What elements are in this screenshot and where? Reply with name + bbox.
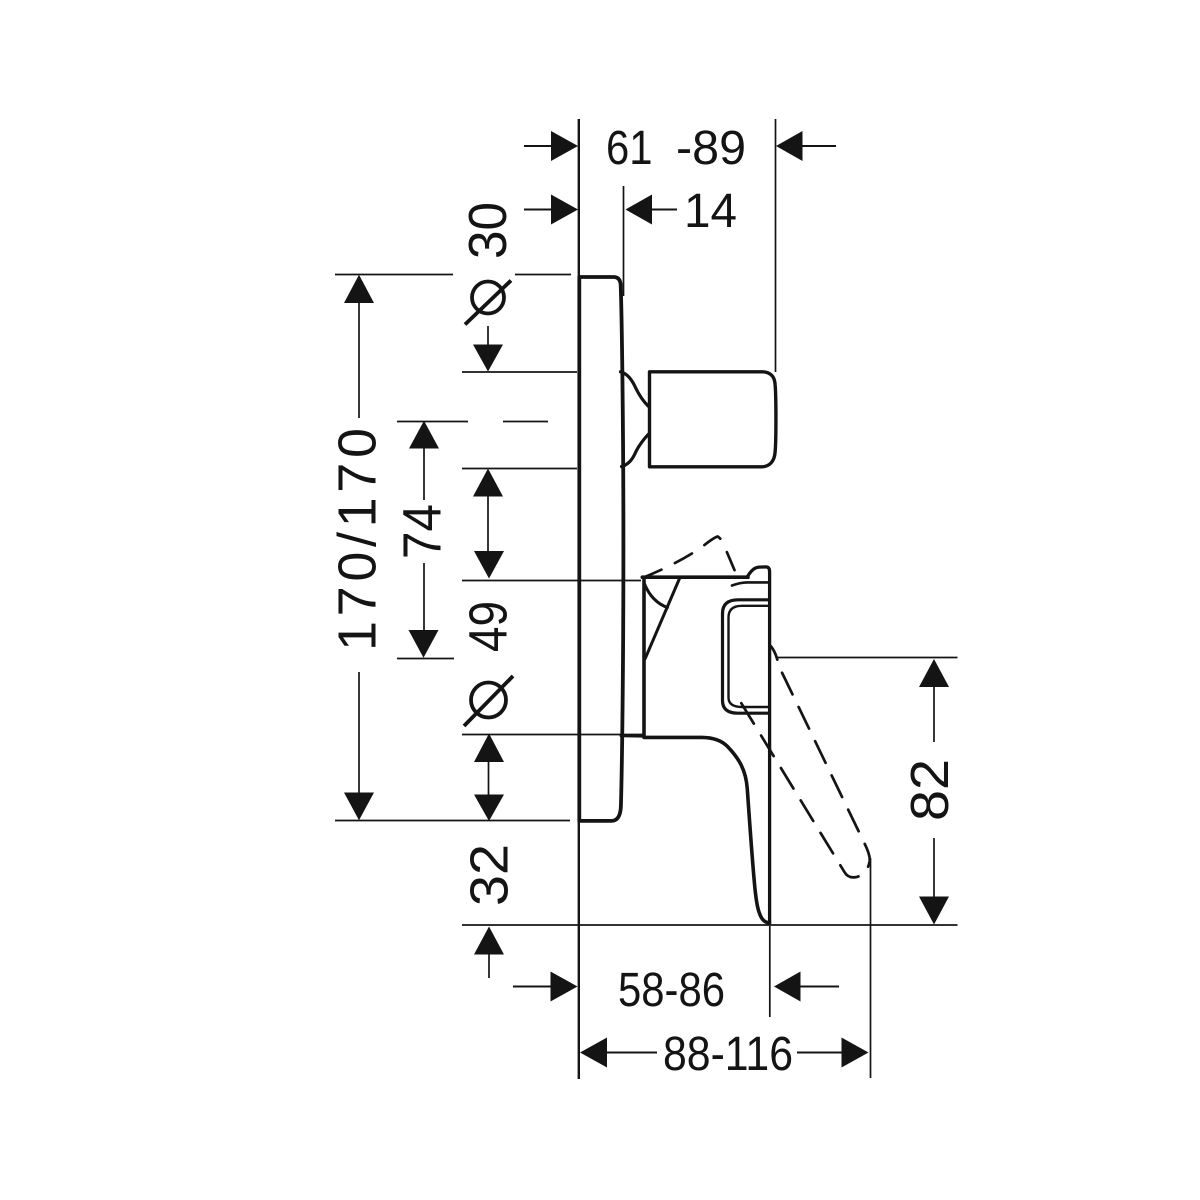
svg-text:170/170: 170/170: [328, 428, 388, 651]
arrow 32 up: [474, 927, 504, 955]
arrow 88-116 right: [842, 1038, 869, 1068]
extension line right 61-89: [775, 119, 777, 372]
handle lip: [747, 567, 770, 923]
svg-text:88-116: 88-116: [663, 1028, 793, 1081]
svg-text:82: 82: [900, 759, 960, 821]
arrow 74 down: [409, 630, 439, 658]
arrow tails 58-86 row: [513, 986, 551, 988]
arrow 61-89 right: [776, 131, 803, 161]
ext line handle axis y658: [397, 658, 454, 660]
arrow 82 up: [919, 659, 949, 687]
svg-text:14: 14: [684, 185, 737, 238]
extension line 88-116 right: [870, 858, 872, 1078]
arrow 32 down: [474, 795, 504, 822]
dashed raised lever: [644, 537, 736, 578]
ext line knob axis y421: [397, 421, 468, 423]
under lip line: [732, 582, 769, 585]
svg-text:61: 61: [606, 122, 653, 175]
arrow d49 up: [474, 734, 504, 763]
arrow 88-116 left: [580, 1038, 607, 1068]
knob neck top: [621, 372, 649, 406]
diverter knob: [650, 372, 776, 467]
arrow 14 left: [551, 195, 578, 225]
svg-text:58-86: 58-86: [618, 964, 725, 1017]
diameter symbol d49: [471, 683, 506, 718]
trim plate: [579, 277, 623, 821]
arrow tails 14 row: [524, 209, 551, 211]
arrow 58-86 right: [774, 972, 801, 1002]
handle hub top: [642, 575, 748, 579]
svg-text:32: 32: [460, 844, 520, 906]
ext line sleeve bottom y734: [462, 734, 643, 736]
svg-text:74: 74: [393, 504, 453, 559]
groove inner: [729, 606, 770, 707]
ext line knob top y372: [462, 371, 577, 373]
ext line sleeve top y580: [462, 580, 641, 582]
arrow 170 down: [344, 793, 374, 821]
handle cone edge: [645, 579, 679, 659]
extension line 58-86 right: [769, 926, 771, 1017]
ext line knob bottom y468: [462, 468, 577, 470]
ext line plate top y274: [335, 274, 453, 276]
arrow tails top row 61-89: [524, 145, 551, 147]
svg-text:-89: -89: [676, 122, 746, 175]
hub bottom and lever: [644, 737, 770, 922]
extension line 14: [623, 186, 625, 296]
ext line 82 top y656: [778, 657, 958, 659]
arrow 82 down: [919, 897, 949, 925]
dim line 170/170 segments: [358, 303, 360, 418]
dim line 74 segments: [423, 449, 425, 501]
svg-text:49: 49: [459, 601, 519, 652]
ext line bottom y925: [462, 924, 958, 926]
dashed lowered lever: [735, 646, 870, 878]
arrow 170 up: [344, 275, 374, 303]
arrow d30 down: [473, 345, 503, 372]
handle cone arc: [645, 584, 668, 608]
sleeve bottom edge: [621, 734, 644, 737]
ext line plate bottom y820: [335, 820, 570, 822]
arrow 74 up: [409, 421, 439, 449]
arrow 14 right: [626, 195, 653, 225]
diameter symbol d30: [472, 282, 504, 314]
svg-text:30: 30: [458, 202, 518, 259]
arrow tails 88-116 row: [607, 1052, 657, 1054]
handle sleeve edge: [642, 578, 646, 736]
arrow d30 up: [473, 469, 503, 497]
dim column d30/d49/32 segments: [487, 326, 489, 345]
wall line: [578, 119, 580, 1079]
arrow 61-89 left: [551, 131, 578, 161]
groove outer: [723, 600, 770, 713]
dim line 82 segments: [933, 687, 935, 743]
knob neck bottom: [622, 434, 649, 466]
arrow 58-86 left: [551, 972, 578, 1002]
arrow d49 down: [474, 551, 504, 579]
